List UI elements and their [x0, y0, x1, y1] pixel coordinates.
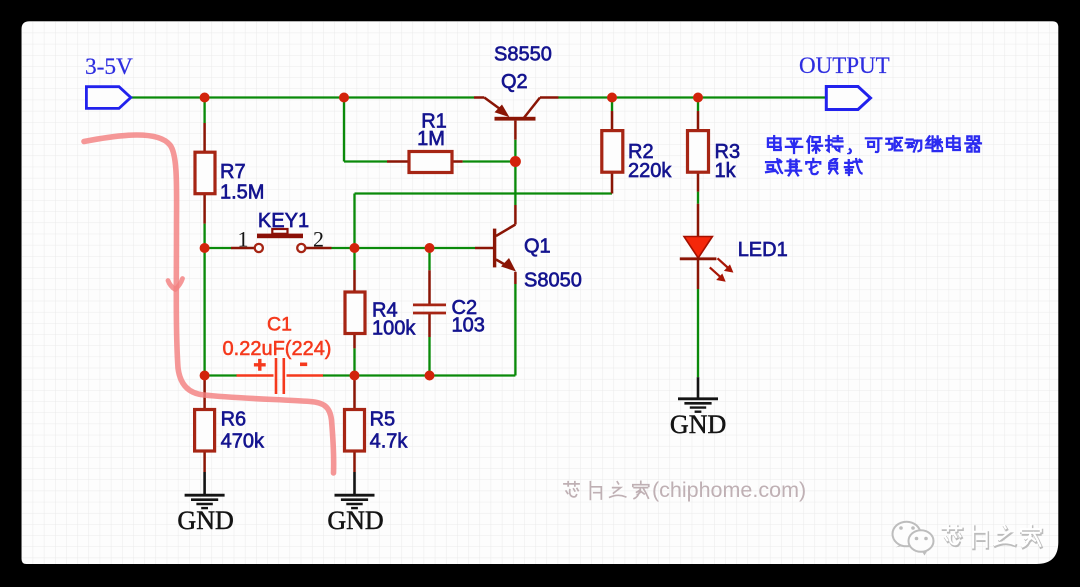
net flag 3-5V — [86, 87, 130, 109]
svg-text:4.7k: 4.7k — [370, 430, 409, 452]
svg-text:OUTPUT: OUTPUT — [799, 53, 890, 78]
svg-text:LED1: LED1 — [738, 239, 788, 261]
resistor R6 pins — [203, 376, 206, 473]
svg-text:1M: 1M — [417, 128, 445, 150]
net flag OUTPUT — [826, 87, 870, 110]
annotation text line 2 (Chinese): or other loads — [766, 159, 862, 176]
capacitor C1 — [276, 358, 284, 394]
svg-text:220k: 220k — [628, 160, 672, 182]
svg-text:3-5V: 3-5V — [85, 54, 133, 80]
junction: KEY row / C2 branch — [425, 243, 435, 253]
wire: Q1 emitter down to bottom row — [514, 284, 516, 376]
svg-text:(chiphome.com): (chiphome.com) — [652, 478, 806, 502]
bottom-right logo CJK text chip home — [943, 526, 1041, 549]
resistor R2 pins — [611, 111, 614, 194]
junction: KEY row / R7 column — [200, 243, 210, 253]
junction: rail / R2 top — [607, 93, 617, 103]
svg-text:470k: 470k — [221, 430, 265, 452]
svg-text:GND: GND — [670, 410, 726, 439]
wire: R1 branch from rail — [344, 98, 387, 162]
junction: KEY row / R4 branch — [350, 243, 360, 253]
junction: rail / R3 top — [693, 93, 703, 103]
junction: bottom row / R6 top — [200, 371, 210, 381]
ground symbol under LED1 — [678, 377, 718, 412]
wire: R7 lower to KEY row to bottom row — [203, 224, 205, 376]
watermark logo bubbles — [893, 522, 934, 556]
resistor R4 pins — [353, 270, 356, 348]
wire: C2 branch — [428, 248, 430, 376]
ground symbol under R5 — [335, 472, 375, 508]
wire: R3 top stub — [697, 98, 699, 112]
resistor R4 — [345, 292, 365, 334]
wire: LED to GND — [697, 289, 699, 377]
watermark CJK text chip home — [564, 481, 649, 499]
LED LED1 — [680, 237, 734, 282]
resistor R2 — [602, 131, 623, 173]
junction: Q2 base node — [510, 156, 521, 167]
junction: bottom row / C2 bottom — [425, 371, 435, 381]
switch KEY1 — [255, 229, 306, 252]
wire: Q2 base vertical / Q1 collector vertical — [514, 140, 516, 205]
wire: feedback row y=193.5 — [355, 192, 613, 194]
svg-text:103: 103 — [452, 315, 485, 337]
svg-text:KEY1: KEY1 — [258, 210, 309, 232]
wire: vertical x=354.5 from feedback row to KEY row — [353, 194, 355, 249]
svg-text:2: 2 — [313, 227, 324, 252]
svg-text:1: 1 — [238, 227, 249, 252]
capacitor C2 pins — [428, 270, 431, 337]
switch KEY1 pins — [231, 247, 332, 250]
svg-text:S8550: S8550 — [494, 44, 552, 66]
ground symbol under R6 — [185, 472, 225, 508]
svg-text:1.5M: 1.5M — [220, 182, 264, 204]
capacitor C2 — [413, 305, 446, 313]
svg-text:100k: 100k — [372, 317, 416, 339]
wire: KEY row segments — [205, 247, 475, 249]
transistor Q1 (NPN S8050) — [475, 205, 516, 284]
wire: R2 top stub — [611, 98, 613, 112]
C1 polarity minus — [300, 362, 307, 366]
svg-text:1k: 1k — [715, 160, 737, 182]
wire: R3 to LED stub — [697, 192, 699, 204]
junction: rail / R7 top — [200, 93, 210, 103]
svg-text:R6: R6 — [221, 408, 247, 430]
resistor R7 — [195, 152, 215, 194]
C1 polarity plus — [254, 359, 266, 371]
capacitor C1 red wires — [237, 374, 324, 377]
resistor R1 — [409, 152, 452, 173]
junction dots — [200, 93, 703, 381]
svg-text:S8050: S8050 — [524, 270, 582, 292]
svg-text:R5: R5 — [370, 408, 396, 430]
resistor R1 pins — [387, 160, 463, 163]
resistor R3 — [688, 131, 709, 173]
svg-text:C1: C1 — [267, 314, 292, 336]
svg-text:Q2: Q2 — [501, 71, 528, 93]
svg-text:R7: R7 — [220, 161, 246, 183]
wire: R7 column upper — [203, 98, 205, 124]
resistor R5 pins — [353, 376, 356, 473]
wire: R4 branch — [353, 248, 355, 376]
svg-text:GND: GND — [327, 506, 383, 535]
annotation arrow (pink hand-drawn) — [84, 135, 334, 473]
wire: top power rail — [131, 96, 827, 98]
svg-text:0.22uF(224): 0.22uF(224) — [223, 338, 332, 360]
transistor Q2 (PNP S8550) — [474, 98, 558, 140]
LED1 pins — [697, 204, 700, 289]
annotation text line 1 (Chinese): level hold, can drive relay — [768, 136, 981, 154]
resistor R3 pins — [697, 111, 700, 192]
resistor R6 — [195, 410, 215, 452]
resistor R5 — [345, 410, 365, 452]
junction: bottom row / R5 top — [350, 371, 360, 381]
svg-text:Q1: Q1 — [524, 236, 551, 258]
resistor R7 pins — [203, 123, 206, 224]
junction: rail / R1 branch — [339, 93, 349, 103]
wire: bottom row segments — [205, 374, 516, 376]
svg-text:GND: GND — [177, 506, 233, 535]
wire: R1 right to Q2 base node — [463, 160, 516, 162]
